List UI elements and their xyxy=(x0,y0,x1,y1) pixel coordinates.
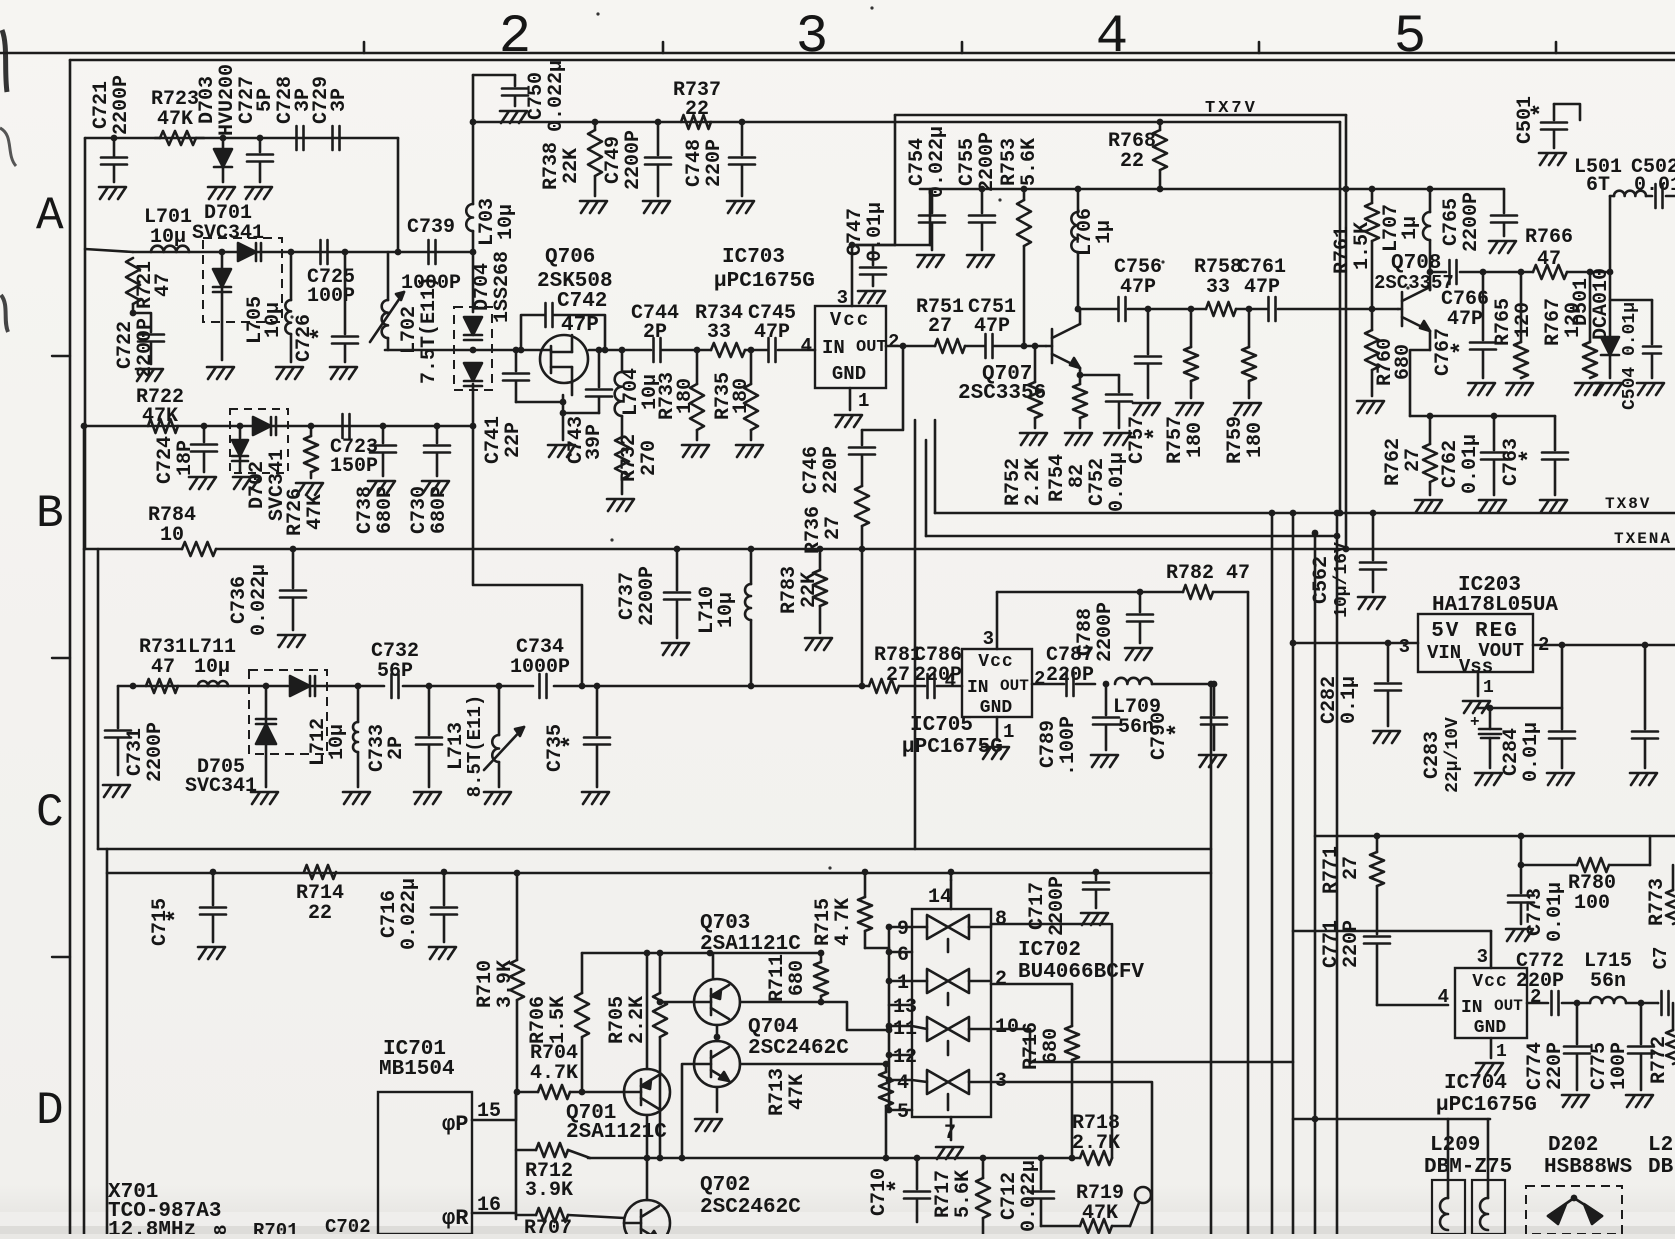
ground xyxy=(276,367,303,379)
resistor R715 xyxy=(812,869,872,948)
ground xyxy=(1415,500,1442,512)
ground xyxy=(484,792,511,804)
ground xyxy=(1575,383,1602,395)
ground xyxy=(1091,755,1118,767)
resistor R752 xyxy=(1002,343,1045,506)
inductor L706 xyxy=(1071,186,1116,313)
ground xyxy=(1506,383,1533,395)
capacitor C728 xyxy=(274,76,315,150)
resistor R751 xyxy=(916,296,965,353)
svg-text:8: 8 xyxy=(212,1225,232,1234)
svg-text:*: * xyxy=(164,909,191,923)
svg-text:φR: φR xyxy=(442,1206,469,1231)
svg-text:IN: IN xyxy=(1461,998,1483,1018)
row label B xyxy=(36,488,64,540)
ground xyxy=(1104,433,1131,445)
integrated circuit IC702 BU4066BCFV xyxy=(912,909,1144,1117)
wire to pin13 xyxy=(821,1002,889,1030)
svg-text:OUT: OUT xyxy=(1494,997,1523,1015)
svg-text:3: 3 xyxy=(837,287,848,309)
svg-text:4: 4 xyxy=(897,1072,909,1095)
capacitor C744 xyxy=(631,302,679,362)
wire drain row y350 xyxy=(589,349,815,352)
ground xyxy=(1125,648,1152,660)
svg-text:MB1504: MB1504 xyxy=(379,1058,455,1081)
wire bus x1293 xyxy=(1290,510,1297,1234)
svg-text:Vcc: Vcc xyxy=(830,309,870,331)
capacitor C206 xyxy=(1632,642,1658,768)
inductor L705 xyxy=(244,249,294,362)
ruler number 2 xyxy=(499,7,531,68)
resistor R711 xyxy=(766,950,828,1006)
svg-text:µPC1675G: µPC1675G xyxy=(1436,1094,1537,1117)
inductor L710 xyxy=(696,546,754,690)
resistor R734 xyxy=(695,302,745,357)
wire Q706 source to ground xyxy=(560,395,567,440)
svg-text:D202: D202 xyxy=(1548,1134,1598,1157)
svg-text:1: 1 xyxy=(897,972,909,995)
pin 1 xyxy=(997,717,1014,743)
svg-text:Q704: Q704 xyxy=(748,1016,798,1039)
svg-text:8: 8 xyxy=(995,908,1007,931)
ground xyxy=(414,792,441,804)
svg-text:GND: GND xyxy=(832,363,866,385)
svg-text:4.7K: 4.7K xyxy=(832,898,855,946)
wire output riser xyxy=(1609,196,1612,272)
svg-text:680: 680 xyxy=(786,960,809,996)
inductor L210 label xyxy=(1648,1134,1674,1179)
diode D701 varactor pair xyxy=(192,202,282,360)
resistor R704 xyxy=(516,1042,624,1099)
wire row B y426 xyxy=(81,423,477,430)
svg-text:10: 10 xyxy=(995,1016,1019,1039)
svg-text:0.022µ: 0.022µ xyxy=(248,564,271,636)
capacitor C751 xyxy=(965,296,1046,358)
capacitor C732 xyxy=(371,640,419,698)
ground xyxy=(330,367,357,379)
transistor Q708 xyxy=(1374,252,1454,416)
inductor L707 xyxy=(1380,186,1433,290)
svg-text:10µ: 10µ xyxy=(715,592,738,628)
svg-text:*: * xyxy=(1529,103,1556,117)
svg-text:0.022µ: 0.022µ xyxy=(398,878,421,950)
ground xyxy=(1373,731,1400,743)
svg-text:3: 3 xyxy=(983,628,994,650)
diode D702 varactor pair xyxy=(230,409,289,521)
ground xyxy=(278,635,305,647)
svg-text:B: B xyxy=(36,488,64,540)
svg-text:22: 22 xyxy=(1120,150,1144,173)
svg-text:IN: IN xyxy=(822,337,845,359)
inductor L501 xyxy=(1574,156,1646,197)
resistor R726 xyxy=(284,423,327,536)
inductor L709 xyxy=(1113,678,1161,739)
inductor L711 xyxy=(188,636,236,686)
ground xyxy=(245,187,272,199)
svg-text:47K: 47K xyxy=(157,108,193,131)
svg-text:IN: IN xyxy=(967,678,989,698)
ground xyxy=(1463,701,1490,713)
ground xyxy=(251,792,278,804)
capacitor C767 xyxy=(1432,269,1496,378)
svg-text:1: 1 xyxy=(858,390,869,412)
svg-text:100P: 100P xyxy=(307,285,355,308)
op-amp IC703 uPC1675G box xyxy=(714,246,887,388)
ground xyxy=(662,643,689,655)
capacitor C702 label xyxy=(325,1216,371,1238)
svg-text:4.7K: 4.7K xyxy=(530,1062,578,1085)
capacitor C737 xyxy=(616,546,690,638)
wire output row y272 xyxy=(1483,271,1610,274)
resistor R768 xyxy=(1108,119,1167,193)
capacitor C729 xyxy=(310,76,351,150)
transistor Q704 xyxy=(679,1016,886,1161)
wire interstage row y309 xyxy=(1078,308,1398,311)
wire top rail y836 xyxy=(1315,833,1675,840)
wire bus x1272 xyxy=(1269,510,1276,1234)
ground xyxy=(936,1147,963,1159)
capacitor C283 electrolytic xyxy=(1421,705,1501,793)
svg-text:0.022µ: 0.022µ xyxy=(926,126,949,198)
capacitor C762 xyxy=(1439,413,1507,495)
svg-text:IC704: IC704 xyxy=(1444,1072,1507,1095)
ground xyxy=(1476,1063,1503,1075)
inductor L715 xyxy=(1574,950,1658,1006)
capacitor C771 xyxy=(1320,920,1390,1005)
svg-text:BU4066BCFV: BU4066BCFV xyxy=(1018,961,1144,984)
resistor R762 xyxy=(1382,413,1437,495)
pin 2 xyxy=(1034,668,1045,690)
svg-text:47P: 47P xyxy=(561,314,599,337)
ground xyxy=(1468,383,1495,395)
capacitor C755 xyxy=(956,132,999,250)
wire node row y138 xyxy=(85,137,398,140)
svg-text:2SA1121C: 2SA1121C xyxy=(566,1121,667,1144)
ruler number 3 xyxy=(796,7,828,68)
wire Q704 emitter xyxy=(716,1087,719,1112)
svg-text:3P: 3P xyxy=(328,88,351,112)
ground xyxy=(207,367,234,379)
wire supply row y189 xyxy=(920,188,1504,191)
svg-text:OUT: OUT xyxy=(1000,677,1029,695)
svg-text:10µ: 10µ xyxy=(194,656,230,679)
ground xyxy=(1595,383,1622,395)
svg-text:1µ: 1µ xyxy=(1399,216,1422,240)
ground xyxy=(1637,383,1664,395)
pin 1 xyxy=(1491,1038,1507,1062)
capacitor C786 xyxy=(899,644,962,698)
resistor R771 xyxy=(1320,836,1384,934)
diode D704 varactor pair xyxy=(454,251,514,426)
resistor R759 xyxy=(1224,306,1267,464)
ground xyxy=(1489,241,1516,253)
pin 2 xyxy=(888,331,899,353)
ground xyxy=(208,187,235,199)
svg-text:IC703: IC703 xyxy=(722,246,785,269)
svg-text:0.01µ: 0.01µ xyxy=(1459,434,1482,494)
svg-text:14: 14 xyxy=(928,886,952,909)
capacitor C776 xyxy=(1650,947,1672,1015)
svg-text:22K: 22K xyxy=(798,572,821,608)
svg-text:0.1µ: 0.1µ xyxy=(1338,676,1361,724)
ground xyxy=(917,255,944,267)
capacitor C721 xyxy=(90,75,133,182)
wire bus x1211 xyxy=(1208,681,1215,1234)
ground xyxy=(1020,433,1047,445)
svg-text:47P: 47P xyxy=(1120,276,1156,299)
svg-text:47: 47 xyxy=(152,273,175,297)
capacitor C504 xyxy=(1610,300,1661,410)
pin 2 xyxy=(969,968,1072,991)
wire row y252 xyxy=(85,249,473,252)
svg-text:GND: GND xyxy=(1474,1018,1507,1038)
wire VOUT net xyxy=(1478,642,1675,708)
pin 3 xyxy=(1399,636,1410,658)
svg-text:12.8MHz: 12.8MHz xyxy=(108,1219,196,1234)
resistor R757 xyxy=(1164,306,1207,464)
svg-text:100P: 100P xyxy=(1608,1042,1631,1090)
resistor R738 xyxy=(540,119,602,196)
svg-text:10µ: 10µ xyxy=(262,302,285,338)
wire row C y686 xyxy=(118,685,869,688)
resistor R782 xyxy=(1166,562,1250,599)
svg-text:3.9K: 3.9K xyxy=(494,960,517,1008)
capacitor C748 xyxy=(683,119,755,196)
ground xyxy=(1626,1095,1653,1107)
svg-text:TXENA: TXENA xyxy=(1614,530,1672,548)
pin 14 xyxy=(928,869,954,909)
wire VIN net xyxy=(1290,640,1418,647)
svg-text:4: 4 xyxy=(1438,986,1449,1008)
svg-text:GND: GND xyxy=(980,698,1013,718)
svg-text:Q706: Q706 xyxy=(545,246,595,269)
transistor Q707 xyxy=(958,309,1083,405)
svg-text:2: 2 xyxy=(995,968,1007,991)
wire signal drop x473 xyxy=(473,426,582,686)
capacitor C765 xyxy=(1440,189,1517,252)
wire TX7V drop x1346 xyxy=(1343,189,1350,552)
svg-text:D: D xyxy=(36,1085,64,1137)
net TX8V xyxy=(935,420,1675,513)
svg-text:56n: 56n xyxy=(1590,970,1626,993)
svg-text:0.01µ: 0.01µ xyxy=(864,202,887,262)
transistor Q703 xyxy=(657,912,821,1025)
pin 8 xyxy=(969,908,1110,931)
ground xyxy=(103,785,130,797)
svg-text:L2: L2 xyxy=(1648,1134,1673,1157)
svg-text:47P: 47P xyxy=(1244,276,1280,299)
svg-text:6: 6 xyxy=(897,944,909,967)
capacitor C745 xyxy=(748,302,796,362)
ground xyxy=(1199,755,1226,767)
svg-text:220P: 220P xyxy=(1544,1042,1567,1090)
ruler tick xyxy=(961,42,964,53)
resistor R721 xyxy=(126,258,175,309)
svg-text:0.01µ: 0.01µ xyxy=(1520,722,1543,782)
border left xyxy=(69,60,72,1234)
resistor R765 xyxy=(1492,269,1535,378)
ground xyxy=(233,477,260,489)
svg-text:2200P: 2200P xyxy=(976,132,999,192)
capacitor C731 xyxy=(105,686,167,782)
wire bus x107 xyxy=(106,849,109,1234)
ground xyxy=(1358,597,1385,609)
resistor R713 xyxy=(766,1061,893,1162)
svg-text:IC702: IC702 xyxy=(1018,939,1081,962)
ground xyxy=(1081,913,1108,925)
svg-text:R701: R701 xyxy=(253,1220,299,1234)
ground xyxy=(1133,403,1160,415)
row label A xyxy=(36,190,64,242)
capacitor C749 xyxy=(602,119,671,196)
ground xyxy=(1506,929,1533,941)
svg-text:VIN: VIN xyxy=(1427,642,1461,664)
capacitor C562 xyxy=(1310,510,1386,618)
ground xyxy=(695,1119,722,1131)
ruler tick xyxy=(662,42,665,53)
resistor R731 xyxy=(130,636,187,693)
wire y245 Vcc link xyxy=(850,189,930,245)
svg-text:Vss: Vss xyxy=(1459,656,1493,678)
ruler tick xyxy=(1258,42,1261,53)
ground xyxy=(198,947,225,959)
svg-text:220P: 220P xyxy=(1340,920,1363,968)
capacitor C789 xyxy=(1037,681,1119,776)
ground xyxy=(967,255,994,267)
svg-text:C739: C739 xyxy=(407,216,455,239)
ground xyxy=(368,481,395,493)
svg-text:180: 180 xyxy=(1244,422,1267,458)
transformer L209 xyxy=(1432,1180,1505,1234)
pin 10 xyxy=(969,1016,1293,1062)
resistor R760 xyxy=(1365,309,1415,396)
capacitor C750 xyxy=(473,60,568,132)
svg-text:+: + xyxy=(1470,713,1480,731)
capacitor C752 xyxy=(1080,375,1132,512)
ruler number 4 xyxy=(1096,7,1128,68)
resistor R758 xyxy=(1194,256,1242,316)
svg-text:2: 2 xyxy=(888,331,899,353)
wire IC703 out net xyxy=(862,343,935,445)
svg-text:C702: C702 xyxy=(325,1216,371,1234)
capacitor C766 xyxy=(1427,260,1489,331)
svg-text:2200P: 2200P xyxy=(622,130,645,190)
svg-text:2.2K: 2.2K xyxy=(626,996,649,1044)
ground xyxy=(422,481,449,493)
ground xyxy=(189,477,216,489)
ground xyxy=(1479,500,1506,512)
capacitor C735 xyxy=(544,683,610,787)
svg-text:C: C xyxy=(36,787,64,839)
ground xyxy=(136,369,163,381)
svg-text:47K: 47K xyxy=(786,1074,809,1110)
ground xyxy=(500,111,527,123)
resistor R767 xyxy=(1542,269,1597,378)
svg-text:2200P: 2200P xyxy=(1460,192,1483,252)
svg-text:27: 27 xyxy=(822,516,845,540)
svg-text:1.5K: 1.5K xyxy=(547,996,570,1044)
resistor R712 xyxy=(516,1143,590,1202)
capacitor C772 xyxy=(1516,950,1577,1015)
svg-text:*: * xyxy=(308,327,335,341)
resistor R719 xyxy=(1041,1182,1151,1233)
inductor L703 xyxy=(466,198,518,246)
capacitor C787 xyxy=(1032,644,1095,696)
ground xyxy=(99,187,126,199)
ground xyxy=(607,499,634,511)
svg-text:2200P: 2200P xyxy=(110,75,133,135)
inductor L713 trimmer xyxy=(445,683,524,798)
svg-text:2200P: 2200P xyxy=(1094,602,1117,662)
svg-text:*: * xyxy=(1517,449,1544,463)
wire pin bus x889 xyxy=(888,927,891,1110)
ground xyxy=(1540,500,1567,512)
svg-text:2P: 2P xyxy=(385,736,408,760)
capacitor C502 xyxy=(1631,156,1675,208)
capacitor C710 xyxy=(868,1155,930,1222)
svg-text:47K: 47K xyxy=(1082,1202,1118,1225)
wire riser x473 xyxy=(472,75,475,252)
op-amp IC705 uPC1675G box xyxy=(902,649,1032,759)
ground xyxy=(736,445,763,457)
ground xyxy=(429,947,456,959)
pin 4 xyxy=(945,670,956,692)
capacitor C757 xyxy=(1126,306,1170,464)
pin 4 xyxy=(886,1072,912,1095)
capacitor C743 xyxy=(563,347,612,464)
capacitor C788 xyxy=(1074,589,1153,662)
ground xyxy=(1539,153,1566,165)
diode bridge D202 label xyxy=(1544,1134,1632,1179)
svg-text:10: 10 xyxy=(160,524,184,547)
svg-text:2.2K: 2.2K xyxy=(1022,458,1045,506)
svg-text:SVC341: SVC341 xyxy=(185,775,257,798)
row tick C/D xyxy=(52,956,70,958)
resistor R732 xyxy=(615,416,661,494)
svg-text:120: 120 xyxy=(1512,302,1535,338)
svg-text:4: 4 xyxy=(801,335,812,357)
inductor L704 xyxy=(615,347,662,416)
svg-text:22µ/10V: 22µ/10V xyxy=(1443,717,1463,793)
svg-text:680: 680 xyxy=(1392,344,1415,380)
svg-text:1: 1 xyxy=(1003,721,1014,743)
pin 1 xyxy=(886,972,912,995)
capacitor C282 xyxy=(1318,640,1401,726)
resistor R707 xyxy=(516,1208,624,1239)
analog switch 2 xyxy=(912,969,969,1005)
svg-text:22P: 22P xyxy=(502,422,525,458)
capacitor C747 xyxy=(844,202,895,286)
integrated circuit IC701 MB1504 xyxy=(378,1038,472,1234)
svg-text:*: * xyxy=(1165,723,1192,737)
resistor R701 label xyxy=(253,1220,299,1239)
row label D xyxy=(36,1085,64,1137)
inductor L712 xyxy=(307,683,361,787)
svg-text:2SC2462C: 2SC2462C xyxy=(748,1037,849,1060)
pin 3 xyxy=(1293,931,1491,968)
svg-text:R773: R773 xyxy=(1646,878,1669,926)
capacitor C774 xyxy=(1524,1003,1590,1090)
capacitor C723 xyxy=(330,414,378,478)
resistor R737 xyxy=(673,79,721,129)
resistor R717 xyxy=(932,1155,990,1234)
svg-text:10µ: 10µ xyxy=(495,204,518,240)
capacitor C726 xyxy=(293,249,358,362)
svg-text:R766: R766 xyxy=(1525,226,1573,249)
svg-text:2: 2 xyxy=(1034,668,1045,690)
resistor R754 xyxy=(1046,375,1089,502)
capacitor C742 feedback xyxy=(518,290,609,353)
